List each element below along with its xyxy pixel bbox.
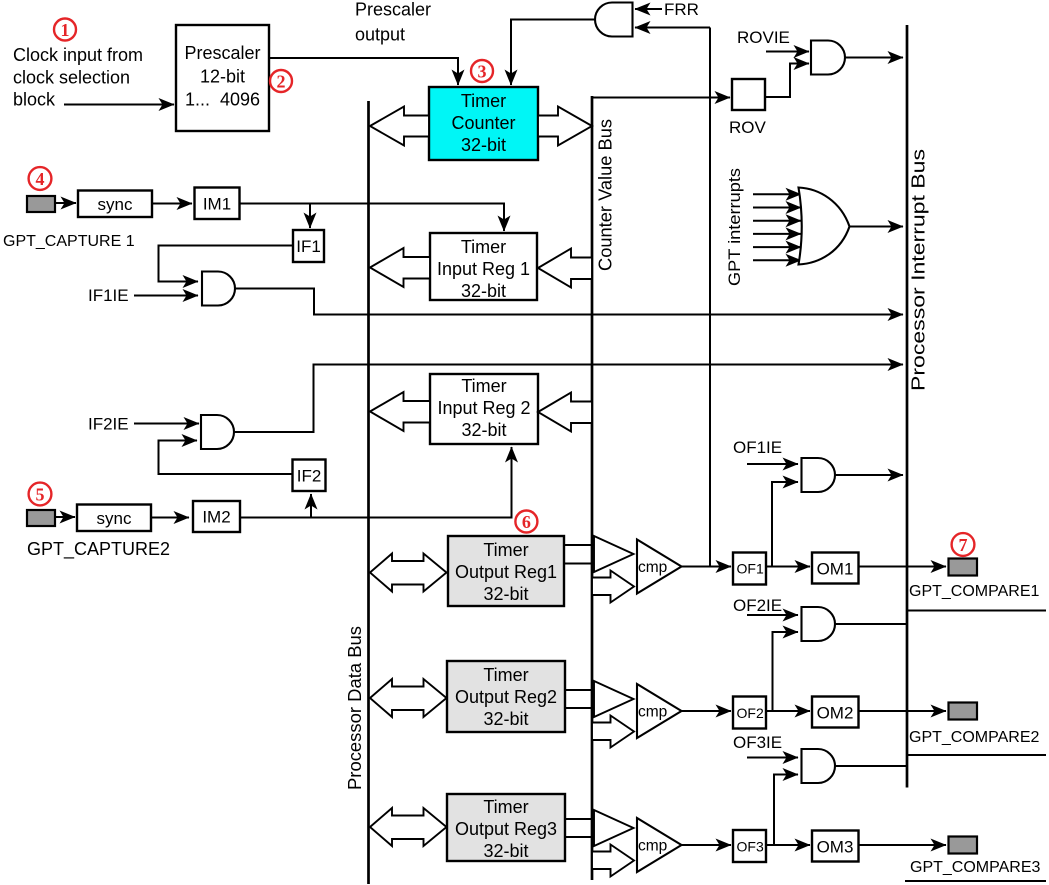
wire G1 output down into timer counter — [511, 20, 595, 86]
node: clock input label — [13, 45, 143, 110]
wire branch down into IF1 — [309, 204, 311, 229]
svg-text:Counter Value Bus: Counter Value Bus — [596, 119, 616, 271]
node 5 callout circle — [29, 483, 52, 506]
svg-text:OF1: OF1 — [737, 561, 764, 577]
wire OM2 to GPT_COMPARE2 pad — [859, 710, 947, 712]
hollow double arrow output reg 2 / data bus — [370, 679, 447, 717]
svg-text:GPT_CAPTURE2: GPT_CAPTURE2 — [27, 539, 170, 560]
svg-text:GPT_COMPARE3: GPT_COMPARE3 — [910, 859, 1041, 876]
svg-text:Clock input from: Clock input from — [13, 45, 143, 65]
hollow arrow input reg 2 to data bus — [370, 392, 430, 431]
node 4 callout circle — [29, 167, 52, 190]
wire IF2IE into gate G5 — [134, 423, 199, 425]
wire OF3 branch up to gate G8 — [774, 775, 798, 846]
svg-text:OM1: OM1 — [817, 560, 854, 579]
svg-text:Output Reg1: Output Reg1 — [455, 562, 557, 582]
svg-text:Prescaler: Prescaler — [355, 0, 431, 20]
svg-text:GPT interrupts: GPT interrupts — [725, 168, 744, 286]
svg-text:Timer: Timer — [461, 91, 506, 111]
hollow arrow counter value bus to cmp2 — [592, 716, 634, 748]
connector pad GPT_CAPTURE2 — [27, 510, 55, 526]
wire clock input to prescaler — [64, 104, 174, 106]
timer output reg 1 — [448, 536, 564, 606]
svg-text:12-bit: 12-bit — [200, 67, 245, 87]
svg-text:Processor Data Bus: Processor Data Bus — [345, 626, 365, 790]
and-gate G4 IF1 — [202, 272, 235, 306]
wire stub below GPT_COMPARE3 — [905, 880, 1046, 882]
svg-text:Timer: Timer — [483, 540, 528, 560]
timer output reg 2 — [447, 661, 565, 732]
wires: six GPT interrupt inputs into OR gate — [753, 194, 801, 260]
hollow double arrow output reg 1 / data bus — [370, 554, 447, 592]
svg-text:4: 4 — [36, 169, 45, 189]
hollow arrow counter value bus to cmp1 — [592, 571, 634, 603]
wire OF2 to OM2 — [766, 710, 810, 712]
OM1 box — [812, 553, 859, 584]
node 2 callout circle — [270, 70, 292, 92]
wire OF3IE into gate G8 — [747, 757, 798, 759]
svg-text:IM1: IM1 — [203, 195, 231, 214]
wire prescaler output to timer counter — [269, 58, 458, 85]
svg-text:FRR: FRR — [664, 0, 699, 19]
wire IF1 to gate G4 — [159, 246, 294, 282]
svg-text:Timer: Timer — [461, 376, 506, 396]
svg-text:Input Reg 1: Input Reg 1 — [437, 259, 530, 279]
wire IM2 branch up into IF2 — [310, 494, 312, 518]
connector pad GPT_COMPARE3 — [949, 837, 978, 854]
wire OF1IE into gate G6 — [747, 463, 798, 465]
hollow arrow output reg2 to cmp2 — [565, 681, 634, 717]
wire ROV to gate G2 — [765, 64, 809, 98]
connector pad GPT_COMPARE2 — [949, 703, 978, 720]
OM2 box — [812, 697, 859, 728]
svg-text:Processor Interrupt Bus: Processor Interrupt Bus — [909, 149, 929, 391]
svg-text:OM3: OM3 — [817, 838, 854, 857]
node 7 callout circle — [952, 533, 975, 556]
OM3 box — [812, 831, 859, 862]
and-gate G8 OF3 — [802, 749, 836, 783]
wire OF2 branch up to gate G7 — [773, 632, 799, 711]
svg-text:output: output — [355, 25, 405, 45]
sync2 box — [77, 505, 151, 532]
svg-text:ROVIE: ROVIE — [737, 28, 790, 47]
wire stub below GPT_COMPARE1 — [907, 610, 1046, 612]
svg-text:Output Reg3: Output Reg3 — [455, 819, 557, 839]
svg-text:sync: sync — [97, 509, 132, 528]
processor data bus line — [367, 101, 370, 884]
wire cmp2 to OF2 — [682, 710, 732, 712]
svg-text:cmp: cmp — [638, 704, 667, 721]
svg-text:sync: sync — [98, 195, 133, 214]
IF1 box — [293, 230, 324, 262]
svg-text:Timer: Timer — [483, 797, 528, 817]
wire OM1 to GPT_COMPARE1 pad — [859, 566, 947, 568]
node 6 callout circle — [515, 511, 537, 533]
svg-text:OF3: OF3 — [737, 839, 764, 855]
comparator cmp2 — [637, 684, 682, 738]
wire OF2IE into gate G7 — [747, 614, 798, 616]
svg-text:GPT_CAPTURE 1: GPT_CAPTURE 1 — [3, 233, 135, 250]
wire FRR into gate — [635, 8, 662, 10]
hollow double arrow output reg 3 / data bus — [370, 808, 447, 846]
svg-text:Timer: Timer — [461, 237, 506, 257]
svg-text:32-bit: 32-bit — [461, 420, 506, 440]
OF1 box — [733, 553, 766, 585]
svg-text:5: 5 — [36, 485, 45, 505]
hollow arrow counter to data bus — [370, 107, 429, 146]
wire G3 output to interrupt bus — [850, 226, 904, 228]
svg-text:ROV: ROV — [729, 118, 767, 137]
svg-text:cmp: cmp — [638, 838, 667, 855]
wire OF3 to OM3 — [766, 844, 810, 846]
hollow arrow counter value bus to cmp3 — [592, 845, 634, 877]
wire stub below GPT_COMPARE2 — [907, 754, 1046, 756]
svg-text:IF1IE: IF1IE — [88, 286, 129, 305]
svg-text:Counter: Counter — [451, 113, 515, 133]
hollow arrow output reg3 to cmp3 — [565, 810, 634, 846]
processor interrupt bus line — [906, 25, 909, 788]
wire counter value bus to ROV — [592, 97, 730, 99]
comparator cmp1 — [637, 540, 682, 594]
wire pad to sync2 — [55, 516, 75, 518]
svg-text:2: 2 — [277, 72, 286, 92]
connector pad GPT_COMPARE1 — [949, 559, 978, 576]
svg-text:OF1IE: OF1IE — [733, 438, 782, 457]
svg-text:32-bit: 32-bit — [461, 135, 506, 155]
hollow arrow counter value bus into input reg 2 — [538, 393, 592, 432]
node 1 callout circle — [54, 19, 76, 41]
wire G6 output to interrupt bus — [835, 474, 903, 476]
and-gate G7 OF2 — [802, 607, 836, 641]
IM1 box — [195, 188, 240, 220]
svg-text:cmp: cmp — [638, 559, 667, 576]
wire OF1 to OM1 — [766, 566, 810, 568]
wire G8 output to interrupt bus — [835, 765, 906, 767]
hollow arrow output reg1 to cmp1 — [564, 536, 634, 572]
svg-text:IF2IE: IF2IE — [88, 415, 129, 434]
wire IF2 to gate G5 — [159, 441, 293, 475]
svg-text:block: block — [13, 90, 56, 110]
svg-text:OF2: OF2 — [737, 705, 764, 721]
svg-text:OF2IE: OF2IE — [733, 596, 782, 615]
svg-text:IF1: IF1 — [296, 237, 321, 256]
wire G7 output to interrupt bus — [835, 623, 906, 625]
comparator cmp3 — [637, 818, 682, 872]
wire cmp1 to OF1 — [682, 566, 732, 568]
svg-text:32-bit: 32-bit — [461, 281, 506, 301]
IM2 box — [193, 501, 240, 532]
svg-text:Output Reg2: Output Reg2 — [455, 687, 557, 707]
wire IM2 to input reg 2 — [240, 447, 512, 518]
svg-text:32-bit: 32-bit — [483, 584, 528, 604]
or-gate G3 GPT interrupts — [799, 188, 850, 265]
wire ROVIE into gate G2 — [766, 51, 809, 53]
and-gate G5 IF2 — [201, 415, 234, 449]
and-gate G6 OF1 — [802, 458, 836, 492]
OF2 box — [733, 697, 766, 729]
svg-text:3: 3 — [478, 62, 487, 82]
svg-text:GPT_COMPARE1: GPT_COMPARE1 — [909, 583, 1040, 600]
svg-text:32-bit: 32-bit — [483, 709, 528, 729]
wire G5 output to interrupt bus — [234, 365, 903, 433]
svg-text:Timer: Timer — [483, 665, 528, 685]
wire sync2 to IM2 — [151, 517, 189, 519]
hollow arrow input reg 1 to data bus — [370, 248, 430, 287]
wire pad to sync1 — [55, 202, 76, 204]
svg-text:OF3IE: OF3IE — [733, 733, 782, 752]
timer input reg 1 — [430, 233, 537, 301]
svg-text:1: 1 — [61, 20, 70, 40]
svg-text:1... 4096: 1... 4096 — [185, 90, 260, 110]
timer output reg 3 — [447, 794, 565, 861]
ROV box — [729, 79, 767, 137]
IF2 box — [293, 460, 326, 492]
wire IM1 to input reg 1 — [240, 204, 505, 232]
and-gate G1 FRR (left facing) — [595, 3, 632, 37]
svg-text:32-bit: 32-bit — [483, 841, 528, 861]
svg-text:Input Reg 2: Input Reg 2 — [437, 398, 530, 418]
wire vertical from G1 input down to cmp1 output — [709, 28, 711, 567]
svg-text:clock selection: clock selection — [13, 68, 130, 88]
wire IF1IE into gate G4 — [134, 295, 198, 297]
wire sync1 to IM1 — [152, 203, 192, 205]
svg-text:OM2: OM2 — [817, 704, 854, 723]
node: prescaler output label — [355, 0, 431, 45]
OF3 box — [733, 830, 766, 862]
prescaler P1 — [176, 25, 269, 131]
wire cmp3 to OF3 — [682, 844, 732, 846]
wire gate G1 input 2 (from vertical line) — [635, 27, 710, 29]
svg-text:Prescaler: Prescaler — [184, 43, 260, 63]
connector pad GPT_CAPTURE 1 — [27, 196, 55, 212]
wire G2 output to interrupt bus — [845, 57, 903, 59]
wire OM3 to GPT_COMPARE3 pad — [859, 844, 947, 846]
hollow arrow counter value bus into input reg 1 — [538, 249, 592, 288]
counter value bus line — [591, 96, 594, 880]
svg-text:IF2: IF2 — [297, 467, 322, 486]
svg-text:7: 7 — [959, 535, 968, 555]
and-gate G2 ROVIE — [811, 41, 845, 75]
timer input reg 2 — [430, 374, 538, 444]
timer counter U1 — [429, 87, 538, 160]
node 3 callout circle — [471, 60, 493, 82]
svg-text:6: 6 — [522, 512, 531, 532]
wire G4 output to interrupt bus — [235, 289, 903, 315]
hollow arrow counter to counter value bus — [538, 107, 592, 146]
svg-text:IM2: IM2 — [202, 508, 230, 527]
wire OF1 branch up to gate G6 — [772, 482, 798, 567]
svg-text:GPT_COMPARE2: GPT_COMPARE2 — [909, 729, 1040, 746]
sync1 box — [78, 191, 152, 218]
